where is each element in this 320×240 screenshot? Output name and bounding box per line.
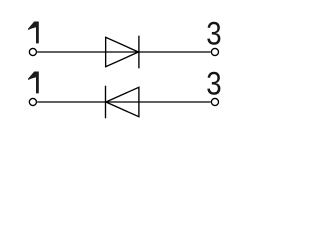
terminal circle pin 3 (bottom): [211, 98, 218, 105]
pin label 1 (bottom diode, cathode-side terminal): [28, 72, 39, 94]
pin label 3 (bottom diode, anode-side terminal): [206, 66, 221, 102]
pin label 3 (top diode, cathode terminal): [206, 16, 221, 52]
svg-text:3: 3: [206, 66, 221, 102]
diode D2 cathode bar: [105, 86, 107, 119]
svg-text:3: 3: [206, 16, 221, 52]
pin label 1 (top diode, anode terminal): [28, 22, 39, 44]
diode D2 triangle (anode, pointing left): [106, 87, 139, 117]
terminal circle pin 1 (bottom): [29, 98, 36, 105]
diode D1 cathode bar: [138, 36, 140, 69]
terminal circle pin 1 (top): [29, 48, 36, 55]
terminal circle pin 3 (top): [211, 48, 218, 55]
wire (top row, pin 1 to pin 3): [37, 51, 211, 53]
wire (bottom row, pin 1 to pin 3): [37, 101, 211, 103]
diode D1 triangle (anode, pointing right): [106, 37, 139, 67]
